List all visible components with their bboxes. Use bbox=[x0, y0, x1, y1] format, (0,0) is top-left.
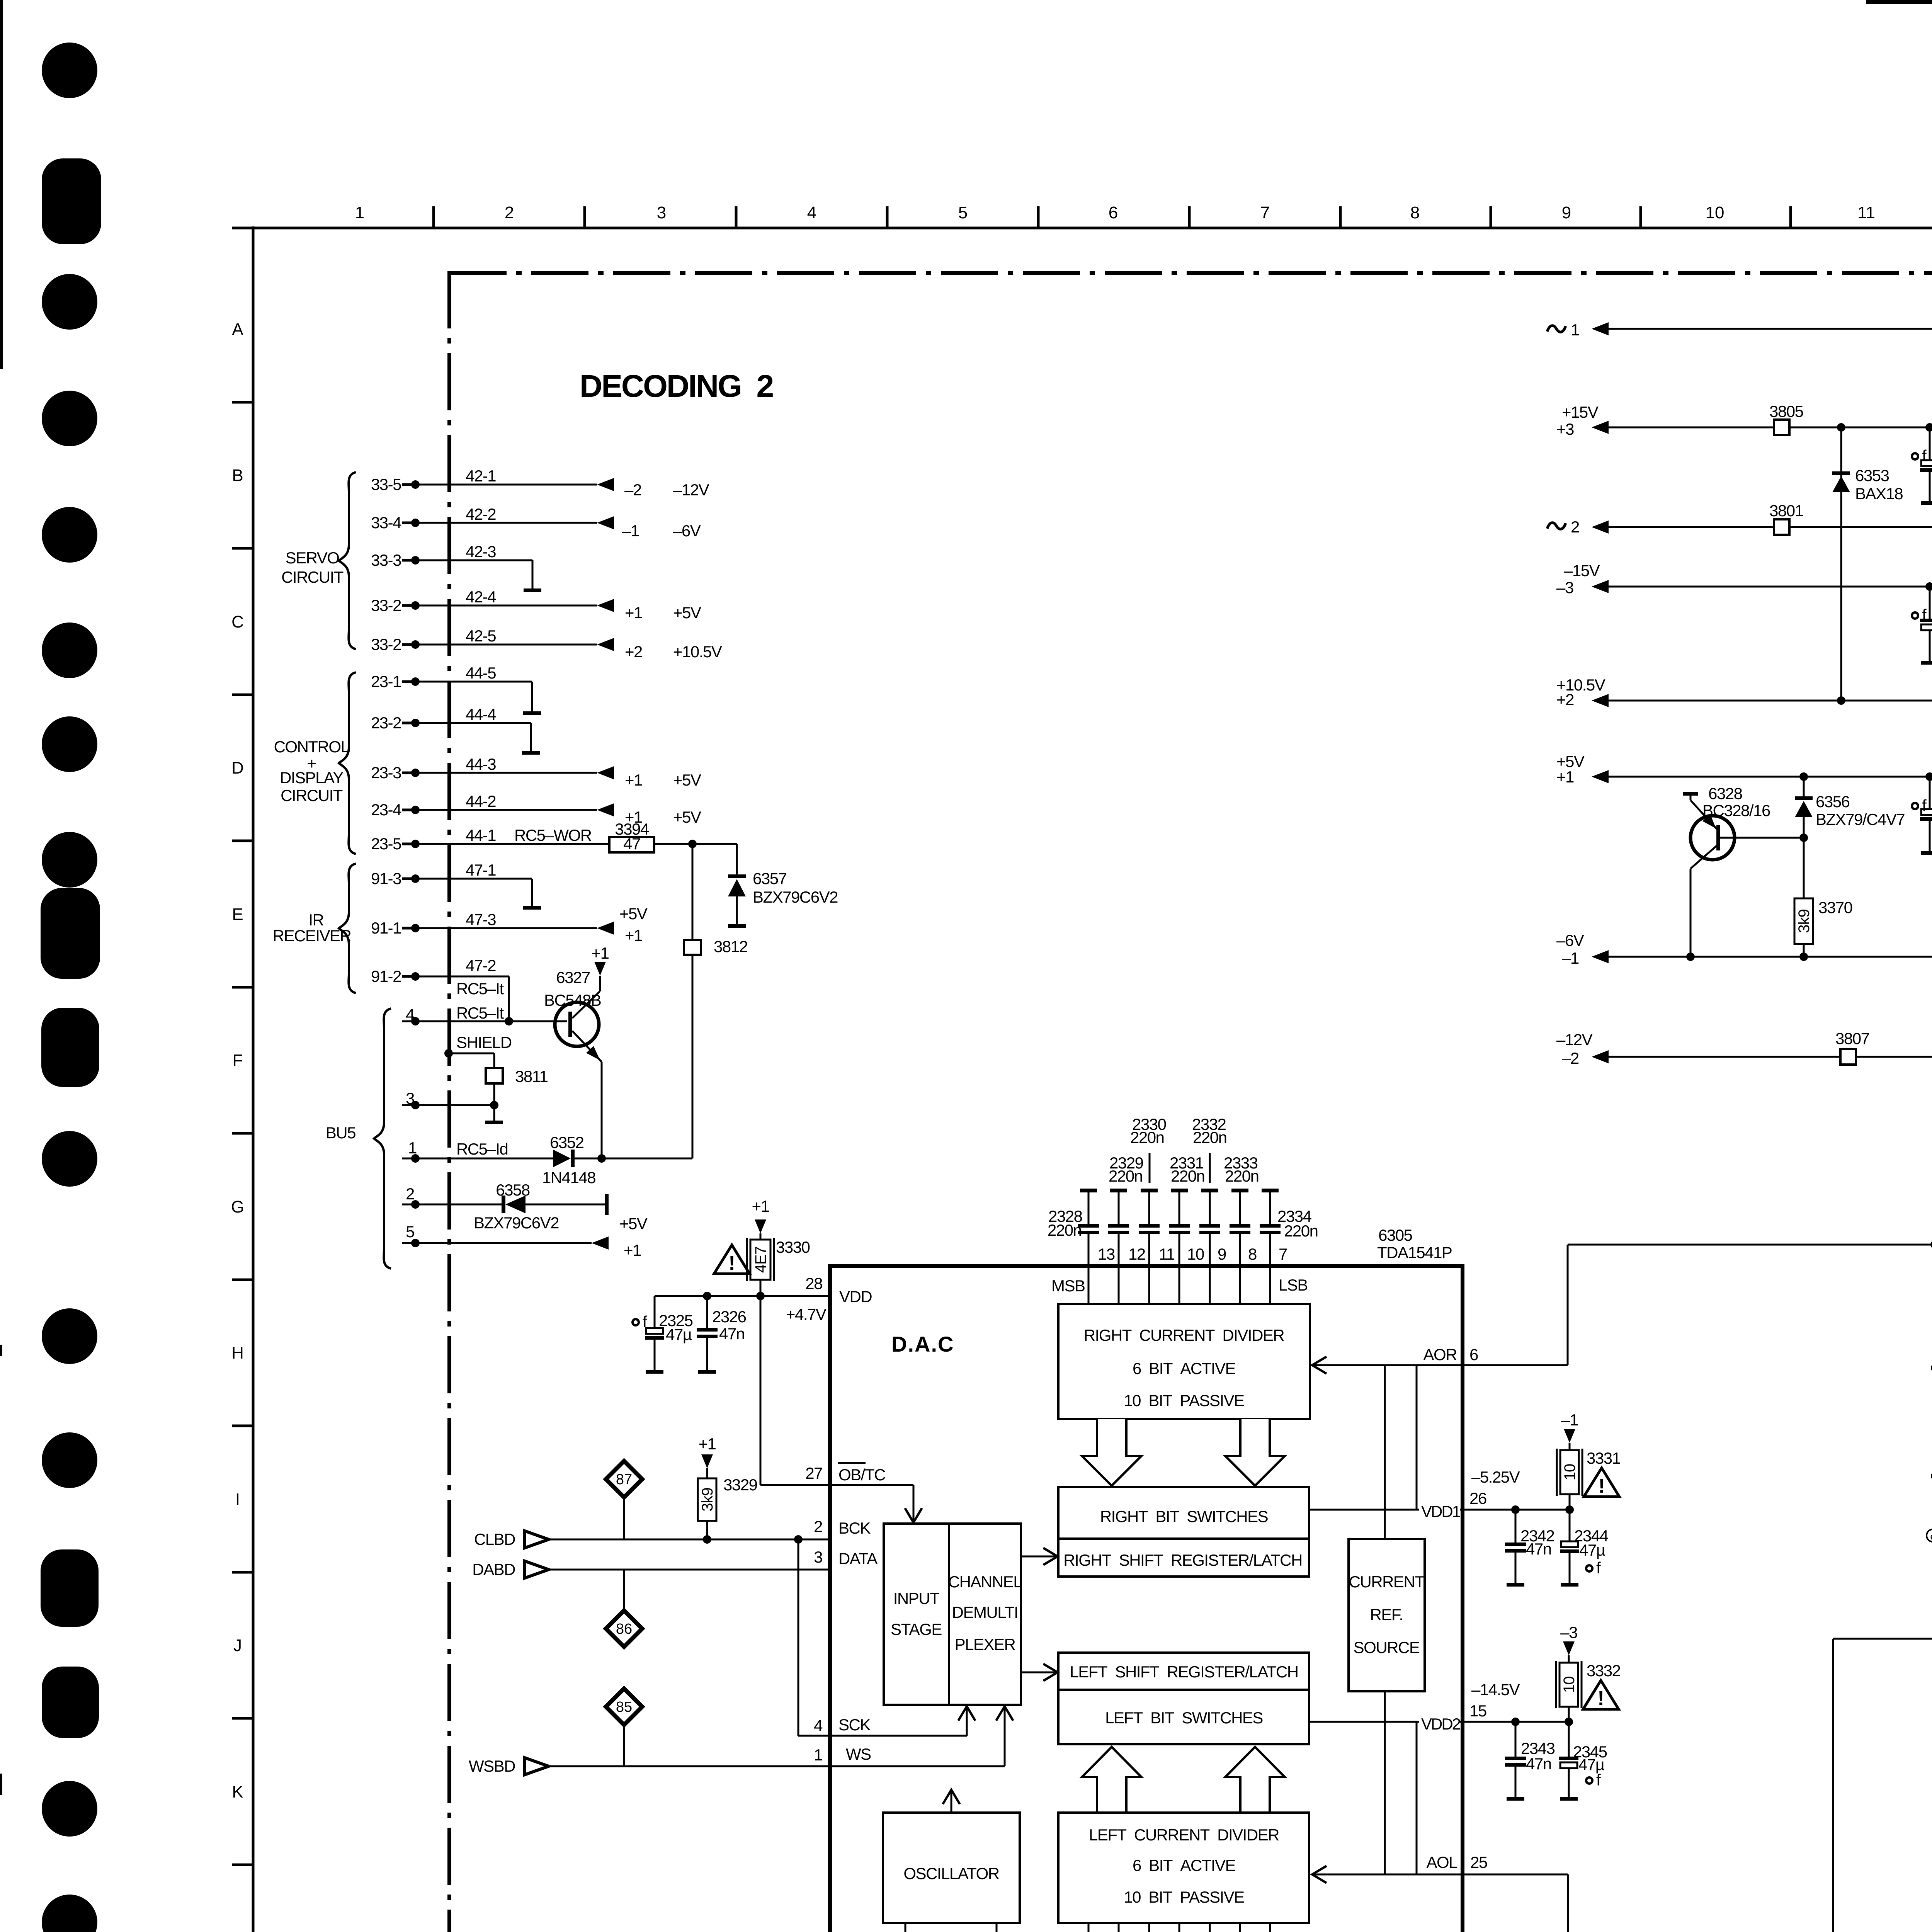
capacitor C2341 220n on pin 24 bbox=[1269, 1923, 1271, 1932]
svg-text:42-1: 42-1 bbox=[466, 467, 496, 485]
svg-text:G: G bbox=[231, 1197, 244, 1216]
svg-text:33-4: 33-4 bbox=[371, 514, 401, 532]
node right stub 1 bbox=[1931, 1364, 1932, 1372]
ruler tick top 9 bbox=[1639, 206, 1642, 228]
capacitor C2345 47u bbox=[1568, 1722, 1570, 1757]
board boundary dash-dot top bbox=[449, 271, 1932, 275]
svg-text:TDA1541P: TDA1541P bbox=[1377, 1243, 1452, 1262]
svg-text:42-5: 42-5 bbox=[466, 627, 496, 645]
svg-text:L: L bbox=[233, 1929, 242, 1932]
punch hole slot 3 bbox=[41, 1008, 99, 1087]
svg-text:3331: 3331 bbox=[1587, 1449, 1621, 1467]
svg-text:+10.5V: +10.5V bbox=[673, 643, 722, 661]
cap label separators top bbox=[1149, 1153, 1151, 1183]
svg-text:+1: +1 bbox=[625, 771, 642, 789]
row boundary tick 8 bbox=[232, 1425, 253, 1427]
svg-text:+4.7V: +4.7V bbox=[786, 1305, 827, 1323]
svg-text:RIGHT SHIFT REGISTER/LATCH: RIGHT SHIFT REGISTER/LATCH bbox=[1063, 1551, 1302, 1569]
punch hole circle 4 bbox=[42, 507, 97, 563]
svg-text:6 BIT ACTIVE: 6 BIT ACTIVE bbox=[1133, 1359, 1236, 1378]
block RIGHT SHIFT REGISTER/LATCH bbox=[1058, 1539, 1309, 1577]
svg-text:3329: 3329 bbox=[723, 1476, 757, 1494]
zener 6356 BZX79/C4V7 bbox=[1803, 777, 1805, 796]
ruler tick top 7 bbox=[1339, 206, 1342, 228]
svg-text:1: 1 bbox=[355, 203, 364, 222]
arrow demux to LSRL bbox=[1021, 1672, 1057, 1673]
capacitor C2342 47n bbox=[1515, 1510, 1517, 1543]
svg-text:1: 1 bbox=[814, 1746, 822, 1764]
svg-text:!: ! bbox=[1597, 1687, 1604, 1710]
wire OB/TC pin 27 bbox=[760, 1296, 762, 1485]
svg-text:LSB: LSB bbox=[1279, 1276, 1308, 1294]
punch hole circle 12 bbox=[42, 1895, 97, 1932]
svg-text:10: 10 bbox=[1561, 1464, 1578, 1481]
svg-text:2: 2 bbox=[406, 1185, 414, 1203]
capacitor C2339 220n on pin 22 bbox=[1209, 1923, 1211, 1932]
wire 4M7 to DEEM node bbox=[1832, 1639, 1834, 1932]
svg-text:VDD2: VDD2 bbox=[1421, 1715, 1461, 1733]
wire WSBD to WS bbox=[546, 1765, 830, 1767]
svg-text:5: 5 bbox=[406, 1223, 414, 1241]
capacitor C2343 47n bbox=[1515, 1722, 1517, 1757]
wire AOL net bbox=[1312, 1866, 1327, 1883]
svg-text:6 BIT ACTIVE: 6 BIT ACTIVE bbox=[1133, 1856, 1236, 1874]
wire VDD1 pin 26 bbox=[1461, 1509, 1570, 1511]
svg-text:220n: 220n bbox=[1284, 1222, 1318, 1240]
svg-text:27: 27 bbox=[805, 1464, 822, 1482]
wire RBS to AOR bbox=[1416, 1365, 1418, 1510]
transistor Q 6327 BC548B bbox=[555, 1002, 599, 1046]
link 3812 bbox=[692, 844, 694, 940]
arrow input stage to RSRL bbox=[1021, 1556, 1057, 1558]
ground for 2326 bbox=[698, 1370, 716, 1374]
svg-text:–3: –3 bbox=[1556, 578, 1573, 597]
svg-text:BZX79C6V2: BZX79C6V2 bbox=[474, 1214, 559, 1232]
svg-text:44-4: 44-4 bbox=[466, 705, 496, 723]
svg-text:220n: 220n bbox=[1171, 1167, 1204, 1185]
svg-text:I: I bbox=[235, 1490, 240, 1509]
svg-text:220n: 220n bbox=[1130, 1128, 1164, 1146]
svg-text:+5V: +5V bbox=[673, 808, 701, 826]
svg-text:2: 2 bbox=[505, 203, 514, 222]
svg-text:+5V: +5V bbox=[673, 771, 701, 789]
svg-text:LEFT SHIFT REGISTER/LATCH: LEFT SHIFT REGISTER/LATCH bbox=[1070, 1663, 1298, 1681]
svg-text:28: 28 bbox=[805, 1274, 822, 1293]
svg-text:6305: 6305 bbox=[1378, 1226, 1412, 1244]
svg-text:–3: –3 bbox=[1560, 1623, 1577, 1641]
svg-text:4E7: 4E7 bbox=[752, 1247, 769, 1273]
svg-text:F: F bbox=[233, 1051, 243, 1070]
emitter wire of 6327 bbox=[601, 1062, 603, 1158]
capacitor C2340 220n on pin 23 bbox=[1239, 1923, 1241, 1932]
block LEFT BIT SWITCHES bbox=[1058, 1690, 1309, 1744]
svg-text:23-5: 23-5 bbox=[371, 835, 401, 853]
row boundary tick 10 bbox=[232, 1717, 253, 1720]
svg-text:3332: 3332 bbox=[1587, 1662, 1621, 1680]
capacitor C2400 47u bbox=[1929, 427, 1931, 460]
svg-text:44-5: 44-5 bbox=[466, 664, 496, 682]
svg-text:4: 4 bbox=[814, 1716, 823, 1735]
big arrow RCD to RBS right bbox=[1225, 1419, 1285, 1486]
svg-text:6353: 6353 bbox=[1855, 466, 1889, 485]
row boundary tick 4 bbox=[232, 840, 253, 842]
svg-text:7: 7 bbox=[1279, 1245, 1287, 1263]
zener 6357 BZX79C6V2 bbox=[736, 844, 738, 874]
svg-text:D.A.C: D.A.C bbox=[891, 1332, 954, 1356]
svg-text:2: 2 bbox=[1571, 518, 1579, 536]
svg-text:E: E bbox=[232, 905, 243, 924]
svg-text:11: 11 bbox=[1857, 203, 1875, 222]
svg-text:c: c bbox=[1930, 1531, 1932, 1542]
wire CLBD to BCK bbox=[546, 1539, 830, 1541]
svg-text:–1: –1 bbox=[1562, 949, 1579, 967]
capacitor C2333 220n on pin 8 bbox=[1231, 1189, 1248, 1192]
svg-text:LEFT CURRENT DIVIDER: LEFT CURRENT DIVIDER bbox=[1089, 1826, 1279, 1844]
link 3811 bbox=[486, 1068, 503, 1083]
capacitor C2336 220n on pin 19 bbox=[1118, 1923, 1120, 1932]
svg-text:WSBD: WSBD bbox=[469, 1757, 515, 1775]
svg-text:6: 6 bbox=[1109, 203, 1118, 222]
wire AOR net bbox=[1312, 1357, 1327, 1374]
border frame: left border line bbox=[252, 226, 255, 1932]
svg-text:47-1: 47-1 bbox=[466, 861, 496, 879]
wire LBS output / VDD2 inside bbox=[1309, 1721, 1461, 1723]
svg-text:VDD1: VDD1 bbox=[1421, 1502, 1461, 1520]
row boundary tick 9 bbox=[232, 1571, 253, 1574]
punch hole circle 8 bbox=[42, 1131, 97, 1187]
svg-text:3k9: 3k9 bbox=[1796, 909, 1813, 933]
line ~1 bbox=[1547, 326, 1566, 332]
ground for 3811 bbox=[485, 1121, 503, 1124]
svg-text:INPUT: INPUT bbox=[893, 1589, 939, 1607]
capacitor C2401 47u bbox=[1929, 777, 1931, 809]
svg-text:+2: +2 bbox=[1556, 690, 1574, 709]
svg-text:6327: 6327 bbox=[556, 968, 590, 986]
punch hole circle 6 bbox=[42, 716, 97, 772]
diamond node 86 bbox=[623, 1570, 625, 1611]
ruler tick top 1 bbox=[432, 206, 435, 228]
svg-text:MSB: MSB bbox=[1051, 1277, 1085, 1295]
svg-text:8: 8 bbox=[1248, 1245, 1257, 1263]
svg-text:+1: +1 bbox=[699, 1435, 716, 1453]
pin 16 wire bbox=[905, 1923, 906, 1932]
svg-text:H: H bbox=[231, 1344, 244, 1362]
svg-text:6358: 6358 bbox=[496, 1181, 530, 1199]
svg-text:3805: 3805 bbox=[1769, 402, 1803, 420]
svg-text:AOR: AOR bbox=[1423, 1345, 1457, 1364]
row boundary tick 1 bbox=[232, 401, 253, 404]
svg-text:CIRCUIT: CIRCUIT bbox=[281, 786, 343, 804]
svg-text:12: 12 bbox=[1128, 1245, 1145, 1263]
ground for 2345 bbox=[1560, 1797, 1578, 1801]
wire VDD pin 28 bbox=[655, 1295, 830, 1297]
svg-text:–15V: –15V bbox=[1564, 561, 1600, 580]
svg-text:10 BIT PASSIVE: 10 BIT PASSIVE bbox=[1124, 1888, 1244, 1906]
svg-text:+5V: +5V bbox=[619, 905, 648, 923]
svg-text:CLBD: CLBD bbox=[474, 1530, 515, 1548]
svg-text:BC328/16: BC328/16 bbox=[1702, 801, 1770, 820]
svg-text:86: 86 bbox=[616, 1621, 632, 1637]
svg-text:2326: 2326 bbox=[712, 1308, 746, 1326]
wire WS inside bbox=[830, 1765, 1005, 1767]
svg-text:DISPLAY: DISPLAY bbox=[280, 769, 344, 787]
svg-text:10: 10 bbox=[1187, 1245, 1204, 1263]
svg-text:–12V: –12V bbox=[1556, 1031, 1593, 1049]
svg-text:+1: +1 bbox=[1556, 768, 1574, 786]
svg-text:87: 87 bbox=[616, 1471, 632, 1488]
diamond node 85 bbox=[606, 1689, 642, 1725]
diode 6353 BAX18 bbox=[1840, 427, 1842, 701]
punch hole circle 11 bbox=[42, 1781, 97, 1837]
svg-text:7: 7 bbox=[1260, 203, 1270, 222]
svg-text:RC5–It: RC5–It bbox=[456, 980, 504, 998]
capacitor C2330 220n on pin 11 bbox=[1141, 1189, 1158, 1192]
rail bar for 2403 bbox=[1921, 661, 1932, 665]
link 3805 bbox=[1774, 420, 1789, 435]
svg-text:DECODING 2: DECODING 2 bbox=[580, 369, 773, 404]
svg-text:+1: +1 bbox=[592, 944, 609, 962]
ruler tick top 2 bbox=[583, 206, 586, 228]
rail bar for 2401 bbox=[1921, 851, 1932, 855]
block RIGHT CURRENT DIVIDER bbox=[1058, 1304, 1310, 1419]
svg-text:10: 10 bbox=[1561, 1677, 1578, 1693]
svg-text:+1: +1 bbox=[624, 1241, 641, 1259]
wire SCK inside bbox=[830, 1735, 967, 1737]
svg-text:STAGE: STAGE bbox=[891, 1620, 942, 1638]
diode 6358 BZX79C6V2 bbox=[502, 1196, 505, 1213]
wire DABD to DATA bbox=[546, 1569, 830, 1571]
scan artifact bar top right bbox=[1866, 0, 1932, 4]
capacitor C2332 220n on pin 9 bbox=[1201, 1189, 1218, 1192]
wire SCK branch bbox=[798, 1539, 799, 1736]
capacitor C2325 47u bbox=[654, 1296, 656, 1328]
svg-text:REF.: REF. bbox=[1370, 1605, 1403, 1624]
svg-text:13: 13 bbox=[1098, 1245, 1115, 1263]
svg-text:CIRCUIT: CIRCUIT bbox=[281, 568, 344, 586]
svg-text:CONTROL: CONTROL bbox=[274, 738, 349, 756]
svg-text:RIGHT CURRENT DIVIDER: RIGHT CURRENT DIVIDER bbox=[1084, 1326, 1284, 1344]
svg-text:10 BIT PASSIVE: 10 BIT PASSIVE bbox=[1124, 1391, 1244, 1410]
svg-text:3801: 3801 bbox=[1769, 502, 1803, 520]
capacitor C2335 220n on pin 18 bbox=[1088, 1923, 1090, 1932]
svg-text:220n: 220n bbox=[1193, 1128, 1226, 1146]
capacitor C2334 220n on pin 7 bbox=[1262, 1189, 1279, 1192]
svg-text:B: B bbox=[232, 466, 243, 485]
collector wire 6328 bbox=[1690, 869, 1692, 957]
block OSCILLATOR bbox=[883, 1813, 1020, 1923]
wire VDD2 pin 15 bbox=[1461, 1721, 1569, 1723]
svg-text:3k9: 3k9 bbox=[699, 1488, 716, 1512]
svg-text:26: 26 bbox=[1469, 1489, 1486, 1507]
resistor 3370 3k9 bbox=[1794, 898, 1813, 944]
block LEFT CURRENT DIVIDER bbox=[1058, 1813, 1309, 1923]
punch hole slot 4 bbox=[41, 1549, 99, 1627]
punch hole circle 2 bbox=[42, 274, 97, 330]
ruler tick top 8 bbox=[1490, 206, 1492, 228]
pin 17 wire bbox=[996, 1923, 998, 1932]
row boundary tick 3 bbox=[232, 694, 253, 696]
oscillator clock arrow bbox=[951, 1792, 952, 1813]
svg-text:–12V: –12V bbox=[673, 481, 709, 499]
capacitor C2331 220n on pin 10 bbox=[1171, 1189, 1188, 1192]
svg-text:+15V: +15V bbox=[1562, 403, 1599, 421]
emitter rail bar 6328 bbox=[1690, 794, 1692, 800]
punch hole slot 1 bbox=[42, 158, 101, 244]
svg-text:23-3: 23-3 bbox=[371, 764, 401, 782]
big arrow LCD to LBS left bbox=[1082, 1747, 1141, 1813]
svg-text:47n: 47n bbox=[1526, 1540, 1551, 1558]
wire CRS top to AOR bbox=[1384, 1365, 1386, 1539]
svg-text:3: 3 bbox=[814, 1548, 822, 1566]
ground for 2344 bbox=[1561, 1583, 1578, 1587]
svg-text:33-3: 33-3 bbox=[371, 551, 401, 569]
svg-text:LEFT BIT SWITCHES: LEFT BIT SWITCHES bbox=[1105, 1709, 1263, 1727]
block CURRENT REF. SOURCE bbox=[1349, 1539, 1425, 1691]
svg-text:25: 25 bbox=[1470, 1853, 1487, 1871]
ruler tick top 4 bbox=[886, 206, 889, 228]
row boundary tick 5 bbox=[232, 986, 253, 989]
svg-text:220n: 220n bbox=[1225, 1167, 1259, 1185]
link 3807 bbox=[1840, 1049, 1856, 1065]
svg-text:DABD: DABD bbox=[472, 1560, 515, 1578]
diode 6352 1N4148 bbox=[553, 1150, 571, 1167]
svg-text:42-2: 42-2 bbox=[466, 505, 496, 523]
svg-text:–2: –2 bbox=[624, 481, 641, 499]
capacitor C2344 47u bbox=[1569, 1510, 1571, 1541]
svg-text:5: 5 bbox=[958, 203, 968, 222]
svg-text:–1: –1 bbox=[622, 522, 639, 540]
svg-text:!: ! bbox=[728, 1252, 735, 1274]
svg-text:9: 9 bbox=[1562, 203, 1571, 222]
svg-text:OB/TC: OB/TC bbox=[838, 1466, 885, 1484]
servo circuit brace bbox=[339, 472, 356, 649]
link 3801 bbox=[1774, 519, 1789, 535]
svg-text:2: 2 bbox=[814, 1517, 822, 1536]
punch hole circle 1 bbox=[42, 43, 97, 98]
svg-text:BZX79/C4V7: BZX79/C4V7 bbox=[1816, 810, 1905, 828]
svg-text:23-4: 23-4 bbox=[371, 801, 401, 819]
ground for 2343 bbox=[1507, 1797, 1524, 1801]
IC U6305 TDA1541P outline bbox=[830, 1266, 1463, 1932]
svg-text:–5.25V: –5.25V bbox=[1471, 1468, 1520, 1486]
svg-text:+1: +1 bbox=[625, 604, 642, 622]
diamond node 87 bbox=[606, 1461, 642, 1497]
svg-text:!: ! bbox=[1598, 1475, 1605, 1497]
left page edge line bbox=[0, 0, 3, 369]
svg-text:1: 1 bbox=[1571, 321, 1579, 339]
svg-text:47n: 47n bbox=[1526, 1755, 1551, 1773]
ground for 2342 bbox=[1507, 1583, 1524, 1587]
svg-text:44-3: 44-3 bbox=[466, 755, 496, 773]
svg-text:47µ: 47µ bbox=[1578, 1755, 1605, 1774]
svg-text:15: 15 bbox=[1469, 1702, 1486, 1720]
svg-text:A: A bbox=[232, 320, 243, 339]
svg-text:47-3: 47-3 bbox=[466, 910, 496, 929]
svg-text:11: 11 bbox=[1159, 1245, 1175, 1263]
svg-text:WS: WS bbox=[846, 1745, 871, 1763]
svg-text:BU5: BU5 bbox=[326, 1124, 355, 1142]
svg-text:33-2: 33-2 bbox=[371, 596, 401, 614]
svg-text:4: 4 bbox=[807, 203, 816, 222]
svg-text:44-2: 44-2 bbox=[466, 792, 496, 810]
block RIGHT BIT SWITCHES bbox=[1058, 1487, 1309, 1539]
wire CRS bottom to AOL bbox=[1384, 1691, 1386, 1874]
svg-text:IR: IR bbox=[309, 911, 324, 929]
punch hole circle 5 bbox=[42, 622, 97, 678]
svg-text:3: 3 bbox=[657, 203, 666, 222]
svg-text:SOURCE: SOURCE bbox=[1354, 1638, 1420, 1656]
svg-text:BC548B: BC548B bbox=[544, 991, 601, 1009]
warning triangle for 3330 bbox=[714, 1245, 750, 1274]
svg-text:CURRENT: CURRENT bbox=[1349, 1573, 1425, 1591]
ruler tick top 10 bbox=[1789, 206, 1792, 228]
ruler tick top 6 bbox=[1188, 206, 1191, 228]
svg-text:220n: 220n bbox=[1109, 1167, 1142, 1185]
svg-text:DEMULTI: DEMULTI bbox=[952, 1603, 1018, 1621]
svg-text:RC5–Id: RC5–Id bbox=[456, 1140, 508, 1158]
ground for 2325 bbox=[646, 1370, 663, 1374]
svg-text:+5V: +5V bbox=[619, 1214, 648, 1233]
big arrow LCD to LBS right bbox=[1225, 1747, 1285, 1813]
svg-text:OSCILLATOR: OSCILLATOR bbox=[903, 1864, 999, 1883]
punch hole slot 2 bbox=[41, 888, 100, 979]
svg-text:91-1: 91-1 bbox=[371, 919, 401, 937]
punch hole slot 5 bbox=[42, 1667, 99, 1738]
svg-text:85: 85 bbox=[616, 1699, 632, 1715]
node right stub 2 / resistor at edge bbox=[1931, 1472, 1932, 1480]
block LEFT SHIFT REGISTER/LATCH bbox=[1058, 1653, 1309, 1690]
ir receiver brace bbox=[339, 864, 356, 993]
svg-text:10: 10 bbox=[1706, 203, 1725, 222]
svg-text:23-1: 23-1 bbox=[371, 672, 401, 690]
svg-text:–6V: –6V bbox=[673, 522, 701, 540]
svg-text:33-2: 33-2 bbox=[371, 635, 401, 653]
svg-text:PLEXER: PLEXER bbox=[955, 1635, 1015, 1653]
svg-text:+1: +1 bbox=[625, 926, 642, 944]
svg-text:6356: 6356 bbox=[1816, 793, 1850, 811]
svg-text:J: J bbox=[233, 1636, 242, 1655]
svg-text:91-3: 91-3 bbox=[371, 869, 401, 888]
board boundary dash-dot left bbox=[447, 271, 451, 1932]
svg-text:44-1: 44-1 bbox=[466, 826, 496, 844]
supply +1 for 6327 bbox=[599, 976, 601, 991]
svg-text:6352: 6352 bbox=[550, 1133, 584, 1151]
punch hole circle 3 bbox=[42, 391, 97, 446]
svg-text:6357: 6357 bbox=[753, 869, 787, 888]
rail bar for 2400 bbox=[1921, 501, 1932, 505]
svg-text:–6V: –6V bbox=[1556, 931, 1584, 949]
svg-text:AOL: AOL bbox=[1426, 1853, 1457, 1871]
bu5 brace bbox=[374, 1009, 391, 1269]
wire RBS output / VDD1 inside bbox=[1309, 1509, 1461, 1511]
svg-text:D: D bbox=[231, 759, 244, 777]
svg-text:BZX79C6V2: BZX79C6V2 bbox=[753, 888, 838, 906]
svg-text:VDD: VDD bbox=[839, 1287, 872, 1306]
svg-text:3370: 3370 bbox=[1818, 898, 1852, 917]
border frame: top ruler line bbox=[232, 227, 1932, 230]
wire LBS to AOL bbox=[1416, 1722, 1418, 1874]
capacitor C2403 47u bbox=[1929, 587, 1931, 619]
ruler tick top 3 bbox=[735, 206, 738, 228]
block INPUT STAGE / CHANNEL DEMULTIPLEXER bbox=[884, 1524, 1021, 1705]
big arrow RCD to RBS left bbox=[1082, 1419, 1141, 1486]
svg-text:+3: +3 bbox=[1556, 420, 1574, 438]
svg-text:47-2: 47-2 bbox=[466, 956, 496, 975]
svg-text:BCK: BCK bbox=[838, 1519, 871, 1537]
svg-text:3807: 3807 bbox=[1835, 1029, 1869, 1048]
svg-text:3811: 3811 bbox=[515, 1067, 548, 1085]
svg-text:33-5: 33-5 bbox=[371, 475, 401, 493]
